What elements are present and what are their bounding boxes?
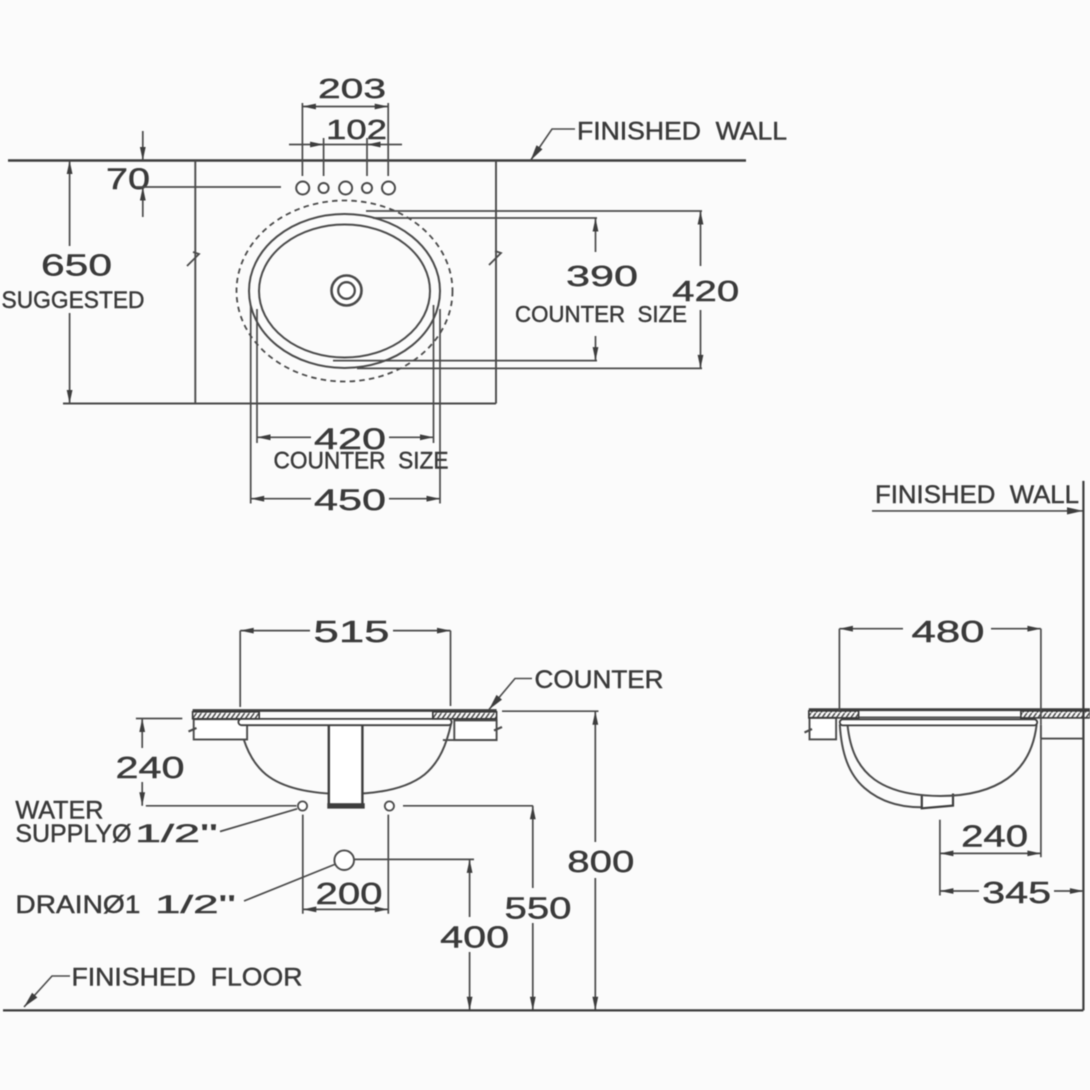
wire counter slab bottom middle (side) xyxy=(859,716,1021,718)
arrowhead 400 bottom xyxy=(467,997,473,1011)
wire finished-wall line (plan) xyxy=(8,159,746,161)
wire 70 dim upper segment xyxy=(142,131,144,161)
water supply hole right xyxy=(385,801,394,810)
hatched counter section right (front) xyxy=(433,712,497,719)
wire 240S right extension xyxy=(1040,739,1042,858)
hatched counter section left (front) xyxy=(193,712,260,719)
wire 390 top extension xyxy=(373,217,597,219)
svg-text:COUNTER: COUNTER xyxy=(535,666,664,694)
arrowhead 800 top xyxy=(592,711,598,725)
arrowhead 70 bottom (up) xyxy=(140,187,146,201)
wire water supply level line left xyxy=(146,805,297,807)
wire 390 bottom extension xyxy=(333,360,597,362)
wire 515 dim line right seg xyxy=(393,630,451,632)
wire 240L top extension tick xyxy=(136,718,182,720)
hatched counter section left (side) xyxy=(809,711,859,718)
svg-text:FINISHED WALL: FINISHED WALL xyxy=(875,481,1079,509)
wire 800 top extension xyxy=(502,710,599,712)
svg-text:DRAINØ1: DRAINØ1 xyxy=(15,891,140,919)
arrowhead 390 bottom xyxy=(593,347,599,361)
arrowhead 203 right xyxy=(375,104,389,110)
wire 345 dim line right seg xyxy=(1054,890,1083,892)
wire 240L dim line lower xyxy=(141,782,143,806)
svg-text:SUGGESTED: SUGGESTED xyxy=(2,287,145,314)
wire finished floor line xyxy=(3,1009,1083,1011)
arrowhead 400 top xyxy=(467,859,473,873)
wire water supply level line right xyxy=(403,805,533,807)
basin bowl curve (front) xyxy=(240,724,452,794)
drain pillar cap (front) xyxy=(327,803,364,808)
svg-text:SUPPLYØ: SUPPLYØ xyxy=(15,820,131,848)
svg-text:345: 345 xyxy=(982,876,1051,910)
drain stub (side) xyxy=(922,794,953,809)
arrowhead finished wall leader xyxy=(531,145,543,160)
wire faucet hole centerline xyxy=(136,186,281,188)
wire 390 dim line upper xyxy=(595,218,597,252)
svg-text:480: 480 xyxy=(912,615,985,649)
wire counter top line (side) xyxy=(809,708,1090,711)
svg-text:515: 515 xyxy=(314,615,390,649)
wire 400 dim line upper xyxy=(469,859,471,917)
arrowhead counter leader xyxy=(489,695,502,710)
wire 200 left extension xyxy=(302,815,304,914)
leader counter label xyxy=(489,679,532,710)
tick on left block edge (front) xyxy=(189,728,197,732)
basin rim flange (front) xyxy=(238,719,451,725)
leader finished wall (plan) xyxy=(531,129,576,161)
arrowhead 240L bottom xyxy=(139,792,145,806)
faucet hole 1 xyxy=(296,182,309,195)
wire 102 left extension xyxy=(323,138,325,176)
arrowhead 102 right (outside) xyxy=(367,142,381,148)
drain outlet circle (front) xyxy=(334,850,354,870)
break mark right counter edge xyxy=(489,251,501,265)
svg-text:COUNTER SIZE: COUNTER SIZE xyxy=(515,301,687,327)
arrowhead 515 right xyxy=(437,628,451,634)
wire right block bottom line (front) xyxy=(443,739,497,741)
counter edge block left (side) xyxy=(810,718,837,740)
wire drain leader xyxy=(244,865,335,902)
svg-text:200: 200 xyxy=(316,877,383,911)
arrowhead 450 right xyxy=(427,496,441,502)
arrowhead 420R top xyxy=(698,211,704,225)
svg-text:COUNTER SIZE: COUNTER SIZE xyxy=(274,448,449,475)
wire 420R dim line lower xyxy=(700,310,702,368)
arrowhead finished floor leader xyxy=(24,993,37,1007)
wire 515 dim line left seg xyxy=(240,630,310,632)
wire 450 right extension xyxy=(439,309,441,504)
wire 420R dim line upper xyxy=(700,211,702,266)
arrowhead 390 top xyxy=(593,218,599,232)
basin inner ellipse xyxy=(259,225,430,358)
basin bowl inner curve (side) xyxy=(848,725,1037,796)
arrowhead 203 left xyxy=(302,104,316,110)
wire supply leader xyxy=(220,809,297,832)
arrowhead 240S left xyxy=(940,851,954,857)
basin outer rim (hidden, dashed ellipse) xyxy=(237,201,453,382)
wire 480 dim line right seg xyxy=(991,628,1041,630)
arrowhead 102 left (outside) xyxy=(310,142,324,148)
svg-text:400: 400 xyxy=(440,921,509,955)
arrowhead finished wall (side) xyxy=(1067,507,1083,514)
wire 240S dim line xyxy=(940,852,1041,854)
wire counter left edge (plan) xyxy=(194,161,196,404)
faucet hole 5 xyxy=(382,182,395,195)
wire 102 dim line xyxy=(289,144,402,146)
svg-text:800: 800 xyxy=(567,845,634,879)
leader finished floor xyxy=(24,976,70,1007)
wire finished wall label underline xyxy=(872,510,1076,512)
svg-text:450: 450 xyxy=(314,484,386,517)
wire 102 right extension xyxy=(366,138,368,176)
drain pillar (front) xyxy=(329,723,363,806)
svg-text:550: 550 xyxy=(505,892,572,926)
arrowhead 420B right xyxy=(420,434,434,440)
arrowhead 650 top xyxy=(67,161,73,175)
arrowhead 240S right xyxy=(1027,851,1041,857)
wire 203 right extension xyxy=(387,103,389,176)
wire 800 dim line lower xyxy=(594,878,596,1010)
wire 390 dim line lower xyxy=(595,336,597,361)
arrowhead 200 left xyxy=(303,907,317,913)
svg-text:203: 203 xyxy=(318,73,386,104)
wire 480 left extension xyxy=(838,629,840,712)
wire 70 dim lower segment xyxy=(142,187,144,217)
wire 450 dim line right seg xyxy=(389,498,440,500)
arrowhead 515 left xyxy=(240,628,254,634)
arrowhead 200 right xyxy=(375,907,389,913)
tick on right block edge (front) xyxy=(494,727,502,731)
faucet hole 4 xyxy=(362,183,372,193)
wire 650 dim line upper xyxy=(69,161,71,247)
basin rim flange (side) xyxy=(840,719,1037,725)
svg-text:650: 650 xyxy=(41,249,112,283)
arrowhead 550 top xyxy=(530,806,536,820)
wire 203 left extension xyxy=(301,103,303,176)
wire 200 dim line xyxy=(303,908,389,910)
wire 650 dim line lower xyxy=(69,313,71,404)
tick on left counter edge (side) xyxy=(805,729,813,733)
counter edge block left (front) xyxy=(194,719,247,739)
wire 450 left extension xyxy=(250,305,252,504)
arrowhead 70 top (down) xyxy=(140,147,146,161)
svg-text:70: 70 xyxy=(106,163,150,196)
svg-text:390: 390 xyxy=(566,261,638,293)
counter block right / wall junction (side) xyxy=(1040,725,1042,739)
counter edge block right (front) xyxy=(454,720,496,740)
wire 450 dim line left seg xyxy=(251,498,311,500)
arrowhead 450 left xyxy=(251,496,265,502)
wire drain level line xyxy=(355,858,475,860)
wire counter right edge (plan) xyxy=(495,161,497,404)
wire 240L dim line upper xyxy=(141,719,143,749)
wire 550 dim line upper xyxy=(532,806,534,888)
arrowhead 345 left xyxy=(940,888,954,894)
arrowhead 550 bottom xyxy=(530,997,536,1011)
wire counter top line (front) xyxy=(193,709,497,712)
wire 200 right extension xyxy=(387,815,389,914)
arrowhead 420R bottom xyxy=(698,355,704,369)
svg-text:102: 102 xyxy=(326,114,387,145)
arrowhead 480 right xyxy=(1027,626,1041,632)
drain outer circle (plan) xyxy=(332,276,362,306)
wire 420B dim line left seg xyxy=(257,436,311,438)
wire 420B right extension xyxy=(433,305,435,443)
wire finished wall line (side) xyxy=(1082,481,1084,1011)
wire 800 dim line upper xyxy=(594,711,596,842)
wire 480 dim line left seg xyxy=(839,628,903,630)
faucet hole 3 xyxy=(339,182,352,195)
basin bowl outer curve (side) xyxy=(840,725,922,808)
arrowhead 480 left xyxy=(839,626,853,632)
wire 203 dim line xyxy=(302,106,388,108)
arrowhead 240L top xyxy=(139,719,145,733)
counter cutout ellipse (outer solid) xyxy=(249,214,440,368)
wire 345 dim line left seg xyxy=(940,890,979,892)
svg-text:FINISHED WALL: FINISHED WALL xyxy=(577,118,787,146)
svg-text:FINISHED FLOOR: FINISHED FLOOR xyxy=(72,964,303,992)
arrowhead 800 bottom xyxy=(592,997,598,1011)
arrowhead 650 bottom xyxy=(67,390,73,404)
hatched counter section right (side) xyxy=(1021,711,1090,718)
wire 400 dim line lower xyxy=(469,952,471,1010)
wire 420R top extension xyxy=(366,210,702,212)
svg-text:1/2'': 1/2'' xyxy=(135,820,218,848)
wire 420B left extension xyxy=(256,309,258,443)
svg-text:240: 240 xyxy=(116,751,185,785)
wire 550 dim line lower xyxy=(532,923,534,1010)
water supply hole left xyxy=(298,801,307,810)
svg-text:420: 420 xyxy=(672,276,739,308)
wire 480 right extension xyxy=(1040,629,1042,725)
svg-text:240: 240 xyxy=(961,820,1028,854)
svg-text:1/2'': 1/2'' xyxy=(155,891,236,919)
wire 420R bottom extension xyxy=(357,367,702,369)
wire counter bottom edge (plan) + 650 extension xyxy=(63,403,496,405)
break mark left counter edge xyxy=(187,252,199,266)
wire 515 left extension xyxy=(239,631,241,707)
faucet hole 2 xyxy=(319,183,329,193)
wire 420B dim line right seg xyxy=(389,436,434,438)
wire 240S left extension xyxy=(939,820,941,896)
drain inner circle (plan) xyxy=(338,282,355,299)
arrowhead 345 right xyxy=(1070,888,1084,894)
wire 515 right extension xyxy=(450,631,452,706)
arrowhead 420B left xyxy=(257,434,271,440)
